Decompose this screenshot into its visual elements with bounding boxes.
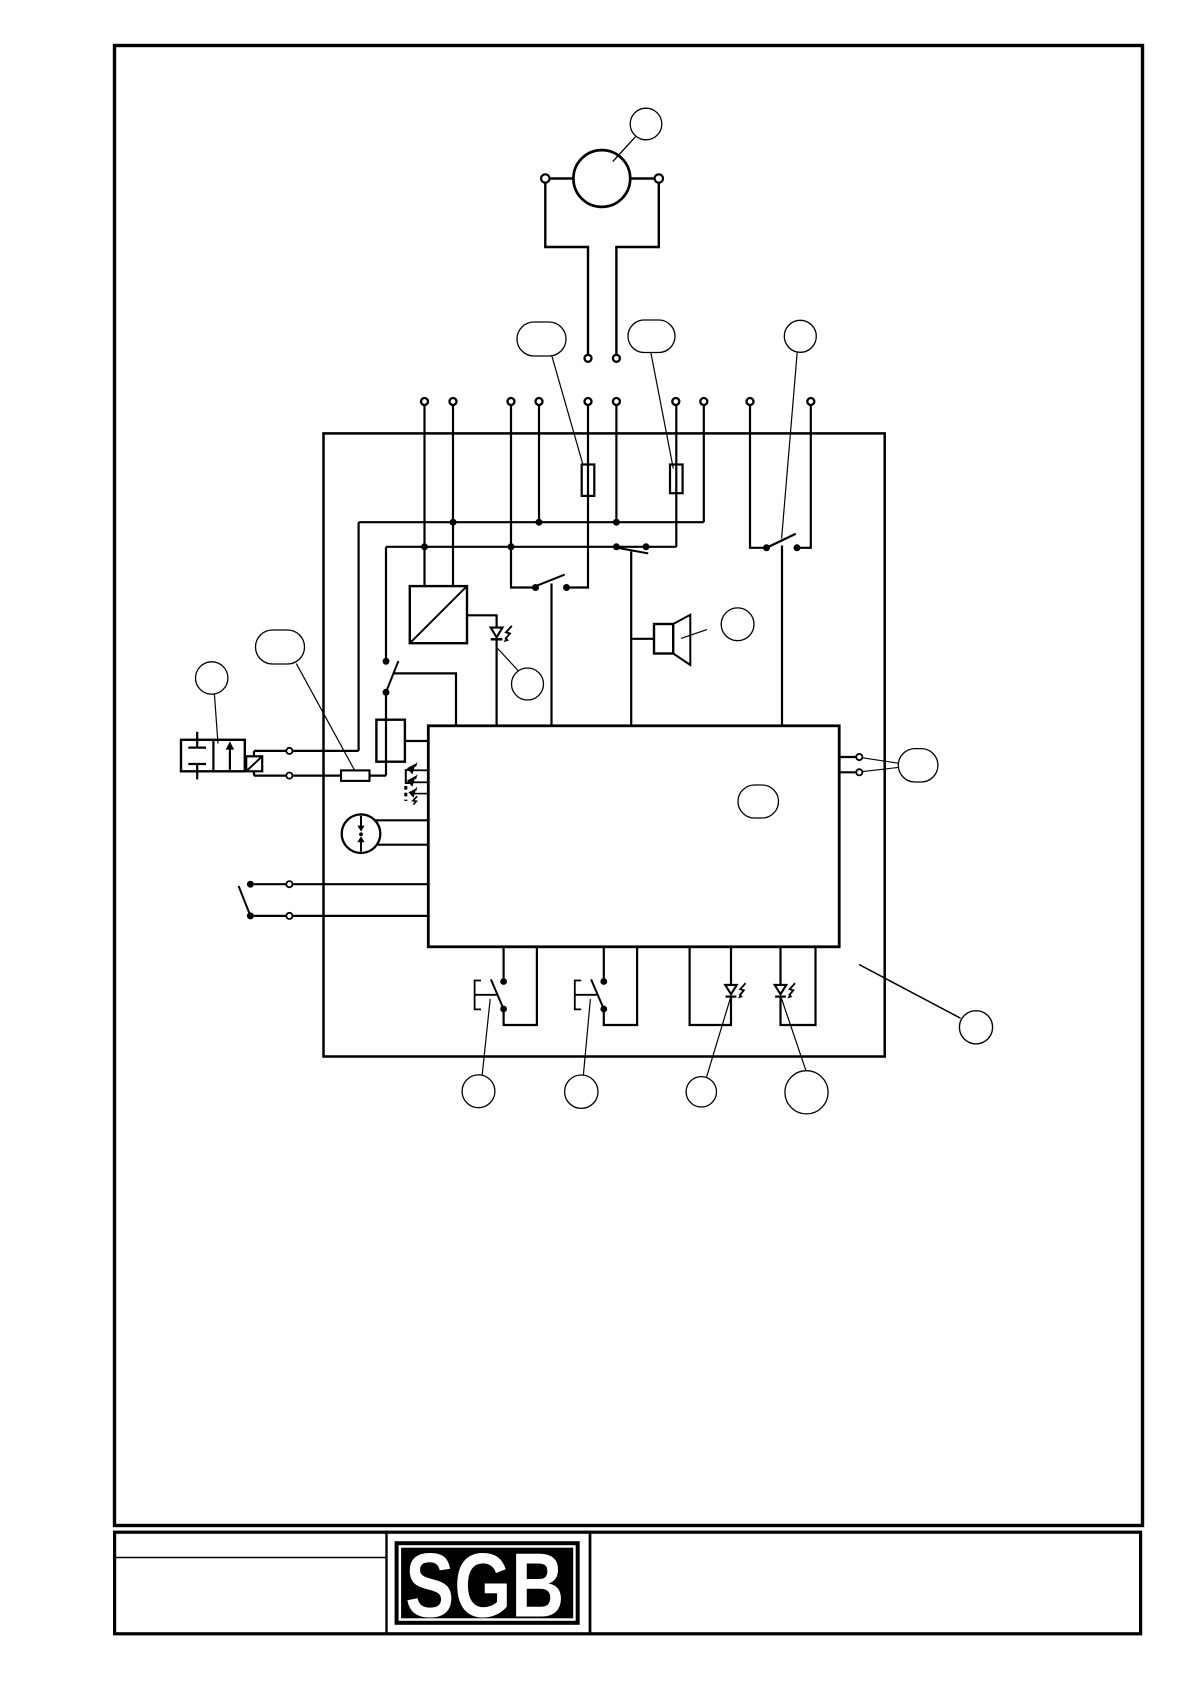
fuse F2 [670,465,683,494]
wire speaker stub [631,638,654,640]
wire S1 top [254,883,286,885]
terminal circle valve bottom [286,773,292,779]
junction [421,543,428,550]
callout circle (H1) [512,668,544,700]
pressure sensor B1 [342,814,381,853]
callout circle (S2) [462,1075,495,1108]
wire contact K4 tap to PCB [393,673,456,725]
wire valve top [254,751,286,756]
footer divider 1 [385,1531,387,1634]
pushbutton S2 loop [503,947,505,979]
leader for valve callout [214,694,218,743]
SGB logo [395,1536,580,1637]
wire motor right lead [630,177,654,179]
LED H1 [491,628,503,638]
callout stadium (fuse F2) [628,320,675,353]
wire transformer output [467,615,497,627]
bus wire L2 [386,546,676,548]
terminal circle valve top [286,748,292,754]
leader for H3 callout [707,999,731,1077]
leader for H4 callout [782,999,806,1071]
leaders for output callout [863,758,899,763]
callout circle (K3) [784,320,816,352]
wire S1 top to PCB [293,883,428,885]
solenoid actuator Y1 [246,756,262,771]
leader for F2 callout [651,352,674,468]
footer sub line [113,1557,387,1559]
leader for contact K3 callout [782,352,798,538]
callout stadium (PCB) [738,785,779,818]
callout circle (H4) [785,1071,828,1114]
wire motor left loop down [545,183,588,355]
valve Y1 closed-port symbol [188,732,206,780]
wire bus L2 left drop [385,547,387,662]
motor callout leader [613,137,636,162]
terminal X4 [536,398,543,405]
wire motor right loop down [616,183,658,355]
wire terminal X3 down to contact [511,405,536,587]
motor terminal right [655,174,663,182]
PCB right pin 1 [839,756,855,758]
pushbutton S2 actuator [475,981,497,1010]
junction [613,519,620,526]
wire valve bottom to resistor [293,774,341,776]
wire contact K1 tap to PCB [550,584,552,726]
speaker H2 [654,624,673,654]
valve Y1 flow arrow [229,749,231,770]
dashed arrow [414,793,428,795]
callout stadium (fuse F1) [517,322,566,356]
wire valve bottom [254,771,286,775]
wire sensor to PCB top [375,819,428,821]
callout circle (enclosure) [959,1011,992,1044]
switch S1 (external, bottom left) [247,881,254,888]
junction [450,519,457,526]
transformer T1 [410,586,467,643]
junction [536,519,543,526]
relay contact K4 (left, above coil) [383,658,390,665]
LED H4 [775,985,787,994]
connector pin circle right [613,355,620,362]
wire terminal X5 through fuse to contact [567,405,589,587]
LED H3 [725,985,737,994]
terminal X3 [508,398,515,405]
wire resistor to coil [370,774,387,776]
terminal X2 [450,398,457,405]
leader for LED H1 callout [498,649,518,671]
relay contact K2 (speaker changeover) [613,543,620,550]
leader for enclosure callout [859,965,961,1019]
motor terminal left [541,174,549,182]
wire terminal X1 to transformer [423,405,425,586]
terminal circle S1 top [286,881,292,887]
motor callout circle [630,108,662,140]
relay coil K4 [376,720,405,762]
pushbutton S3 actuator [575,981,597,1010]
terminal circle S1 bottom [286,913,292,919]
wire bus L1 left drop [358,522,360,751]
valve Y1 body [181,740,245,772]
relay contact K1 (under fuse F1) [532,584,539,591]
terminal X7 [672,398,679,405]
wire terminal X6 to bus1 [615,405,617,522]
connector pin circle left [585,355,592,362]
bus wire L1 [359,521,704,523]
terminal X6 [613,398,620,405]
flash symbol H4 [789,983,795,995]
fuse F1 [582,465,595,496]
pushbutton S3 loop [603,947,605,979]
wire S1 bottom to PCB [293,915,428,917]
relay contact K3 (right) [763,544,770,551]
junction [508,543,515,550]
svg-text:SGB: SGB [405,1536,564,1637]
flash symbol H1 [505,626,512,639]
page frame [115,46,1143,1526]
wire through relay coil [385,692,387,775]
leader for resistor callout [296,664,355,771]
callout circle (H2) [721,608,754,641]
leader for S3 callout [583,999,590,1075]
terminal X10 [807,398,814,405]
footer block [115,1532,1141,1634]
wire valve top to bus drop [293,750,358,752]
terminal X1 [421,398,428,405]
footer divider 2 [589,1531,592,1634]
wire contact K3 common to PCB [781,546,783,726]
LED H4 loop [779,947,781,985]
callout stadium (valve circuit) [256,630,305,664]
motor M1 [573,150,630,207]
flash symbol H3 [739,983,745,995]
callout stadium (outputs) [898,749,938,782]
wire motor left lead [550,177,574,179]
wire sensor to PCB bottom [376,844,428,846]
wire terminal X2 to transformer [452,405,454,586]
wire terminal X4 to bus1 [538,405,540,522]
optocoupler arrows at PCB edge [413,769,428,771]
resistor R1 [341,770,370,781]
wire coil to PCB [405,740,428,742]
terminal X5 [585,398,592,405]
wire terminal X10 to contact K3 [797,405,811,548]
callout circle (Y1) [196,662,228,694]
wire terminal X8 to bus1 [703,405,705,522]
wire terminal X7 through fuse to bus2 [675,405,677,547]
opto bracket [406,770,412,783]
mechanical link dashed [404,786,407,801]
callout circle (S3) [565,1075,598,1108]
control PCB box [428,726,839,947]
leader for S2 callout [482,999,490,1075]
leader for speaker callout [681,630,707,639]
wire contact K2 to speaker and PCB [630,552,632,726]
wire terminal X9 to contact K3 [750,405,767,548]
LED H3 loop [690,947,731,1025]
terminal X8 [700,398,707,405]
leader for F1 callout [552,356,583,465]
terminal X9 [747,398,754,405]
callout circle (H3) [686,1077,716,1107]
PCB right pin 2 [839,771,855,773]
wire S1 bottom [254,915,286,917]
outer enclosure box [324,433,885,1056]
